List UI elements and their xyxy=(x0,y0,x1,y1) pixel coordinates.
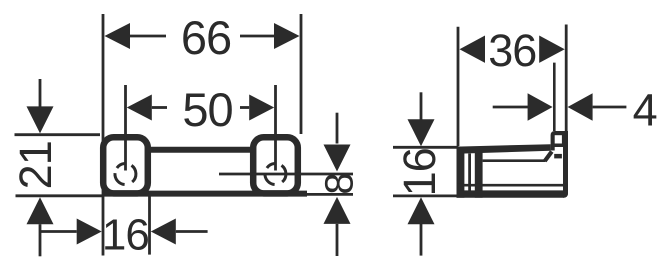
svg-text:16: 16 xyxy=(102,211,149,260)
svg-text:4: 4 xyxy=(633,84,657,135)
svg-text:50: 50 xyxy=(182,83,232,136)
svg-text:21: 21 xyxy=(10,141,61,189)
svg-text:66: 66 xyxy=(181,11,231,64)
svg-text:8: 8 xyxy=(318,173,362,194)
svg-text:16: 16 xyxy=(394,148,445,196)
svg-text:36: 36 xyxy=(488,25,536,76)
